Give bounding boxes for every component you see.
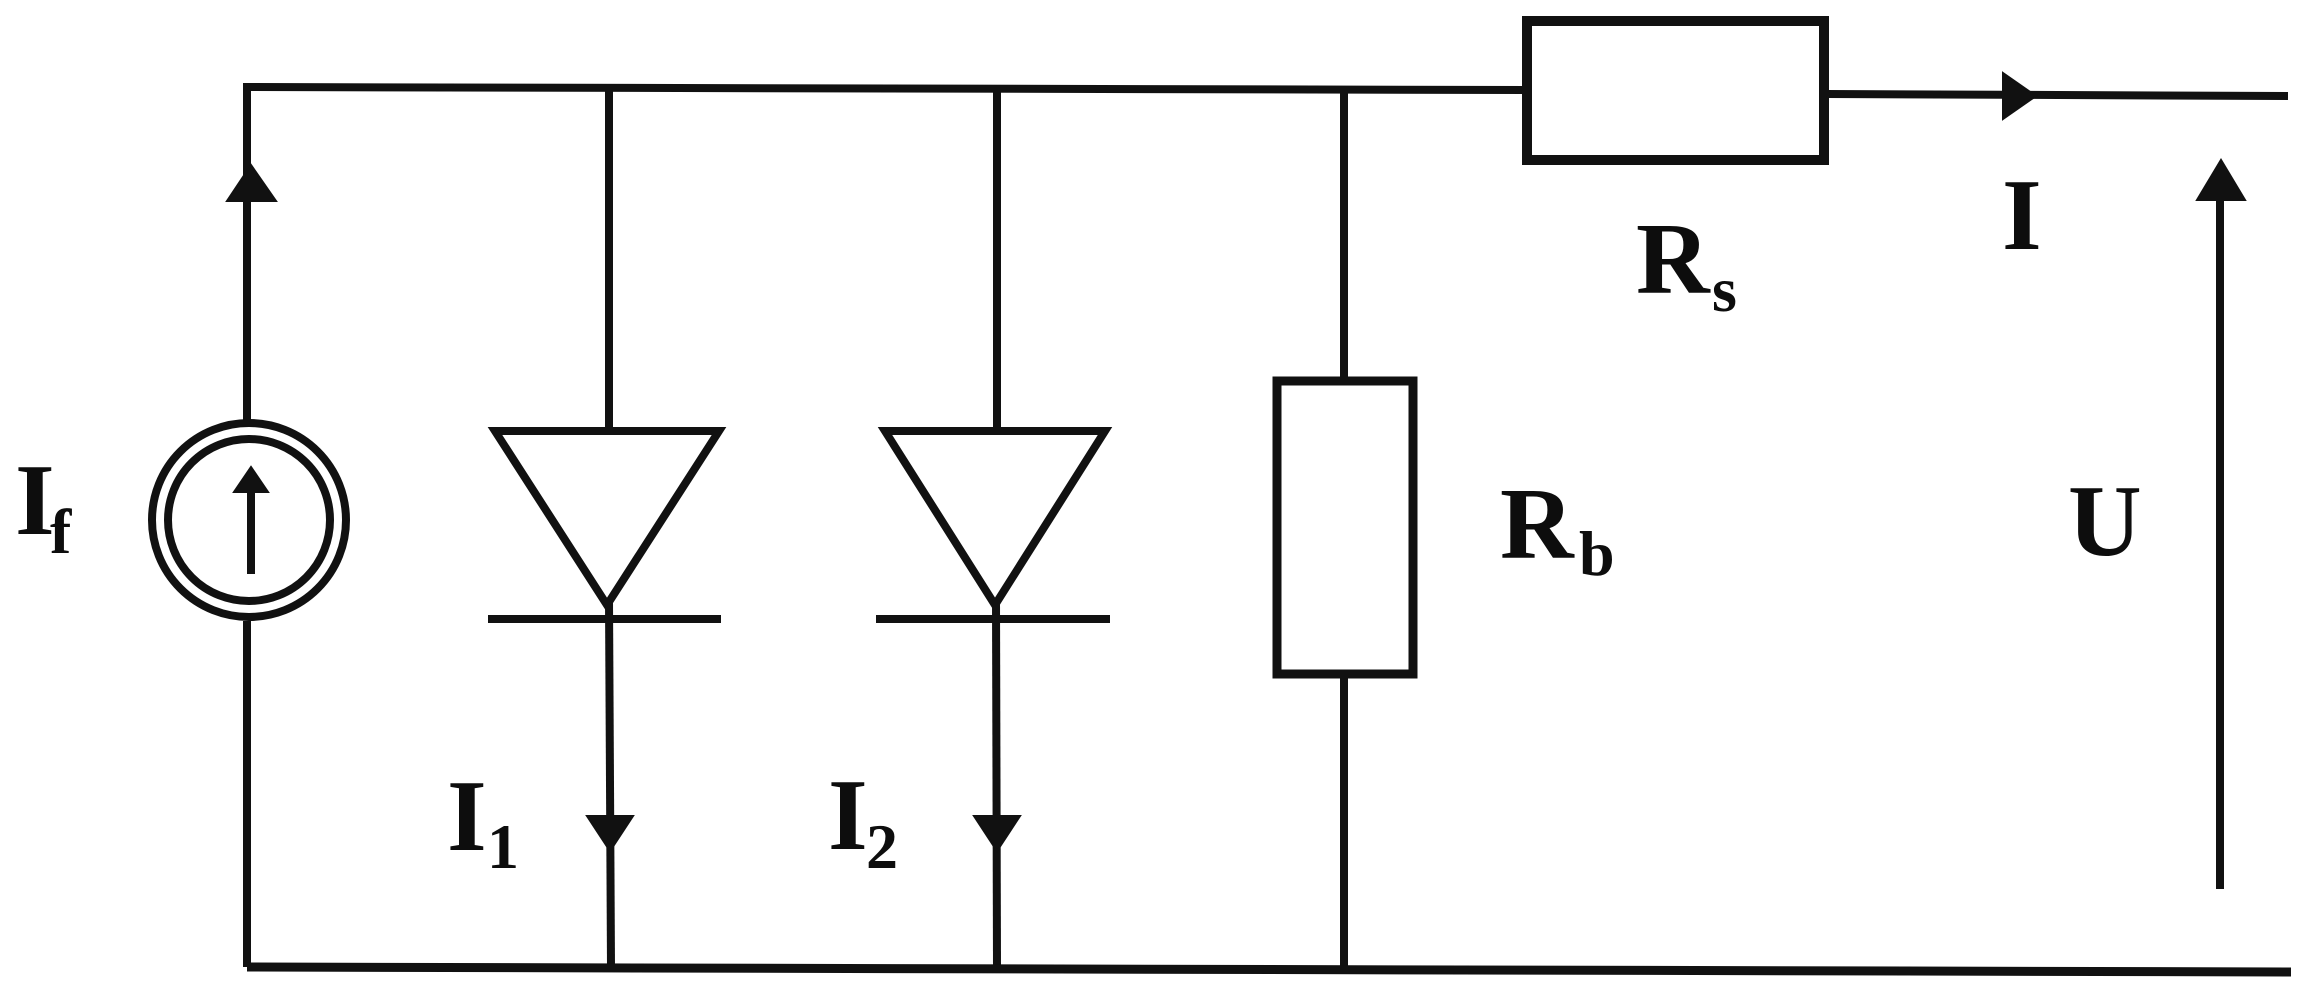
svg-text:2: 2 xyxy=(866,811,898,882)
arrow: output voltage U reference xyxy=(2197,160,2245,889)
label U xyxy=(2068,465,2142,578)
wire: diode D2 anode branch xyxy=(993,87,1001,431)
svg-text:I: I xyxy=(447,760,487,873)
wire: left branch lower segment xyxy=(243,621,251,967)
svg-text:I: I xyxy=(15,444,55,557)
svg-text:I: I xyxy=(828,759,868,872)
svg-text:b: b xyxy=(1579,518,1615,589)
wire: bottom bus xyxy=(247,967,2291,972)
label I (output current) xyxy=(2002,159,2042,272)
svg-text:I: I xyxy=(2002,159,2042,272)
label Rs xyxy=(1636,203,1737,325)
arrowhead: I2 current direction xyxy=(974,816,1020,851)
svg-text:s: s xyxy=(1712,254,1737,325)
current source If (double circle with up arrow) xyxy=(152,423,346,617)
wire: resistor Rb bottom lead xyxy=(1340,674,1348,969)
svg-text:f: f xyxy=(50,496,72,567)
label I2 xyxy=(828,759,898,882)
arrowhead: I1 current direction xyxy=(587,816,633,851)
arrowhead: If current direction on left wire xyxy=(227,165,276,201)
svg-text:R: R xyxy=(1636,203,1711,316)
diode D2 xyxy=(876,431,1110,619)
label If xyxy=(15,444,72,567)
wire: diode D2 cathode branch xyxy=(996,601,997,967)
wire: top bus left segment (node A to Rs) xyxy=(247,87,1524,421)
arrowhead: output current I direction xyxy=(2003,73,2036,119)
svg-text:U: U xyxy=(2068,465,2142,578)
svg-text:1: 1 xyxy=(487,811,519,882)
label I1 xyxy=(447,760,519,882)
diode D1 xyxy=(488,431,721,619)
label Rb xyxy=(1500,468,1615,589)
wire: diode D1 cathode branch xyxy=(609,601,611,967)
wire: resistor Rb top lead xyxy=(1340,88,1348,381)
resistor Rb xyxy=(1277,381,1413,674)
resistor Rs xyxy=(1527,21,1824,160)
wire: diode D1 anode branch xyxy=(605,86,613,431)
svg-text:R: R xyxy=(1500,468,1575,581)
wire: top bus right segment (Rs to output) xyxy=(1827,94,2288,96)
